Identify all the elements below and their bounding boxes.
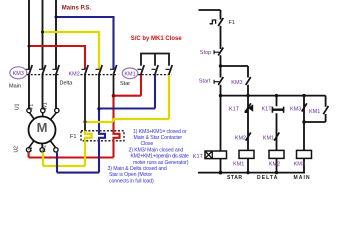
svg-text:W2: W2	[42, 145, 48, 153]
svg-text:Main: Main	[9, 84, 21, 90]
svg-text:connects in full load): connects in full load)	[109, 178, 154, 184]
svg-text:K1T: K1T	[262, 106, 273, 112]
svg-text:S/C by MK1 Close: S/C by MK1 Close	[131, 36, 183, 42]
svg-text:KM3: KM3	[231, 80, 242, 86]
svg-text:V1: V1	[29, 104, 35, 110]
svg-text:Stop: Stop	[200, 50, 211, 56]
svg-text:KM1: KM1	[124, 72, 135, 78]
svg-text:3) Main & Delta closed and: 3) Main & Delta closed and	[108, 166, 167, 172]
svg-text:Delta: Delta	[60, 80, 74, 86]
svg-text:V2: V2	[28, 146, 34, 152]
svg-text:2) KM3/ Main closed and: 2) KM3/ Main closed and	[129, 147, 184, 153]
svg-text:F1: F1	[229, 20, 235, 26]
svg-text:Start: Start	[199, 79, 211, 85]
svg-text:KM3: KM3	[294, 161, 305, 167]
svg-text:KM3: KM3	[13, 71, 24, 77]
svg-text:KM2: KM2	[269, 161, 280, 167]
svg-text:K1T: K1T	[193, 154, 204, 160]
svg-text:moter runs as Generator): moter runs as Generator)	[133, 160, 189, 166]
svg-text:DELTA: DELTA	[257, 175, 278, 181]
svg-text:KM1: KM1	[263, 135, 274, 141]
svg-text:U2: U2	[14, 146, 20, 153]
svg-text:M: M	[37, 120, 48, 135]
svg-text:MAIN: MAIN	[294, 175, 311, 181]
svg-text:U1: U1	[15, 103, 21, 110]
svg-text:KM1: KM1	[309, 109, 320, 115]
svg-text:F1: F1	[70, 134, 76, 140]
svg-text:KM1: KM1	[233, 161, 244, 167]
svg-text:STAR: STAR	[227, 175, 243, 181]
svg-text:Star: Star	[120, 81, 130, 87]
svg-text:K1T: K1T	[229, 106, 240, 112]
svg-text:Star is Open (Motor: Star is Open (Motor	[109, 172, 152, 178]
svg-text:KM2+KM1+open(in dis state: KM2+KM1+open(in dis state	[131, 154, 189, 160]
svg-text:Main & Star Contacter: Main & Star Contacter	[134, 135, 183, 141]
svg-text:W1: W1	[43, 102, 49, 110]
svg-text:KM2: KM2	[235, 135, 246, 141]
svg-text:KM3: KM3	[290, 106, 301, 112]
svg-text:Close: Close	[141, 141, 154, 147]
svg-text:1) KM3+KM1= closed or: 1) KM3+KM1= closed or	[133, 129, 187, 135]
svg-text:Mains P.S.: Mains P.S.	[62, 6, 92, 12]
svg-text:KM2: KM2	[69, 72, 80, 78]
